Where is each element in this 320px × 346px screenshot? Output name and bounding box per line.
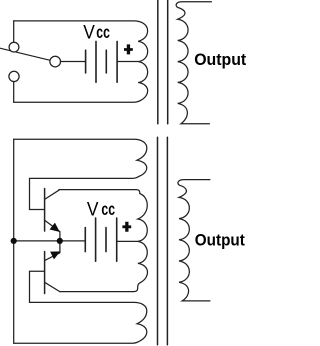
switch S1 throw terminal to battery (circle) [50, 56, 61, 67]
wire: left rail segment from top wire down to switch common terminal [13, 21, 15, 42]
label + polarity of battery B1 [124, 44, 133, 54]
battery B1 short (negative) plate 2 [105, 50, 107, 73]
wire: top rail from left corner to transformer T1 primary, plus primary winding coil and bottom rail return [14, 21, 148, 102]
battery B1 tall (positive) plate 1 [95, 41, 97, 82]
svg-text:V: V [83, 21, 95, 43]
label + polarity of battery B2 [122, 222, 131, 232]
svg-text:cc: cc [96, 22, 110, 42]
transformer T2 core line 1 [157, 137, 159, 345]
transistor Q2 emitter arrowhead [51, 252, 59, 258]
transistor Q1 collector lead [45, 190, 59, 199]
svg-text:cc: cc [101, 199, 115, 219]
transformer T2 lower base winding: Q2 base wire, down, 2 turns, to bottom rail [14, 271, 147, 343]
wire: battery B2 positive to T2 primary center tap [117, 240, 137, 242]
switch S1 lever blade [0, 48, 50, 60]
transformer T2 core line 2 [166, 137, 168, 345]
svg-text:V: V [87, 198, 99, 220]
transformer T2 secondary winding with output leads [178, 180, 210, 301]
battery B1 tall (positive) plate 2 [116, 41, 118, 82]
transistor Q1 base bar [44, 189, 46, 232]
transformer T1 secondary winding with output leads [176, 2, 211, 124]
battery B2 short (negative) plate 2 [105, 228, 107, 252]
svg-text:Output: Output [195, 230, 245, 249]
wire: left rail of bottom circuit (top corner to bottom corner) [13, 139, 15, 343]
wire: left rail segment from switch lower throw down to bottom wire [13, 82, 15, 103]
battery B2 tall (positive) plate 2 [116, 218, 118, 261]
junction dot on left rail [11, 238, 17, 244]
junction dot at emitter node [57, 238, 63, 244]
transformer T2 feedback winding: top wire, 2 turns, return to Q1 base [14, 139, 147, 209]
transistor Q2 base bar [44, 252, 46, 294]
transistor Q2 collector lead [45, 282, 60, 291]
switch S1 lower throw terminal (circle) [9, 71, 19, 81]
battery B1 short (negative) plate 1 [85, 50, 87, 73]
switch S1 common terminal (circle) [9, 42, 19, 52]
transformer T1 core line 2 [167, 0, 169, 124]
wire: emitter node to left rail and on to battery B2 [14, 240, 85, 242]
transistor Q1 emitter arrowhead [51, 224, 59, 231]
transformer T2 primary (collector) winding with center tap: Q1 collector wire, 4 turns, Q2 collector wire [59, 190, 148, 292]
transistor Q2 emitter lead with corner to node [45, 241, 60, 261]
svg-text:Output: Output [194, 50, 246, 69]
wire: switch throw to battery negative plate [61, 61, 85, 63]
transformer T1 core line 1 [157, 0, 159, 124]
transistor Q1 emitter lead with corner to node [45, 220, 60, 241]
battery B2 short (negative) plate 1 [84, 228, 86, 252]
wire: battery positive to primary center tap [118, 61, 138, 63]
battery B2 tall (positive) plate 1 [95, 218, 97, 261]
